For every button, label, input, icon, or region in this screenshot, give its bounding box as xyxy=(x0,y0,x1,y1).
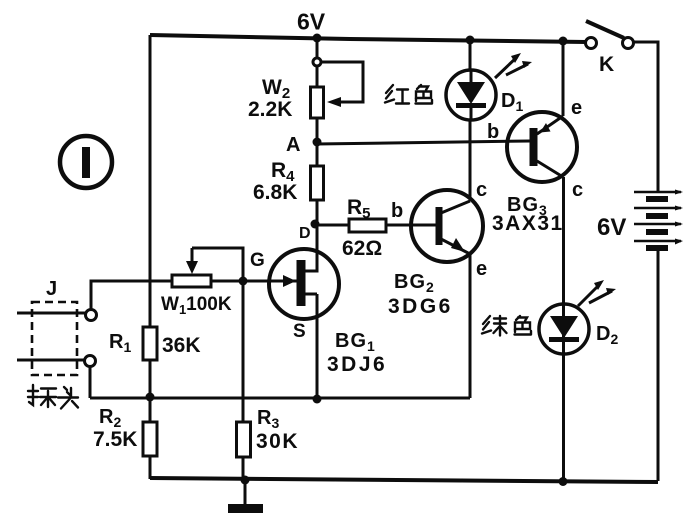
svg-text:3DJ6: 3DJ6 xyxy=(327,353,387,376)
svg-text:c: c xyxy=(476,179,487,201)
svg-text:3DG6: 3DG6 xyxy=(388,295,453,318)
svg-text:36K: 36K xyxy=(162,334,201,357)
svg-text:c: c xyxy=(572,179,583,201)
svg-text:30K: 30K xyxy=(256,430,299,453)
svg-text:b: b xyxy=(391,200,403,222)
svg-text:7.5K: 7.5K xyxy=(93,428,137,451)
svg-text:6V: 6V xyxy=(597,214,626,241)
svg-text:S: S xyxy=(293,321,306,342)
svg-text:J: J xyxy=(46,278,57,300)
svg-text:2.2K: 2.2K xyxy=(248,98,292,121)
svg-text:b: b xyxy=(487,121,499,143)
svg-text:3AX31: 3AX31 xyxy=(492,212,564,235)
svg-text:6V: 6V xyxy=(297,9,326,35)
svg-text:e: e xyxy=(571,97,582,119)
svg-text:6.8K: 6.8K xyxy=(253,181,297,204)
svg-text:G: G xyxy=(250,250,265,271)
svg-text:e: e xyxy=(476,258,487,280)
svg-text:D: D xyxy=(299,225,311,242)
svg-text:62Ω: 62Ω xyxy=(342,237,382,260)
svg-text:A: A xyxy=(286,134,300,156)
svg-text:K: K xyxy=(599,53,614,76)
svg-text:W1100K: W1100K xyxy=(161,294,232,317)
